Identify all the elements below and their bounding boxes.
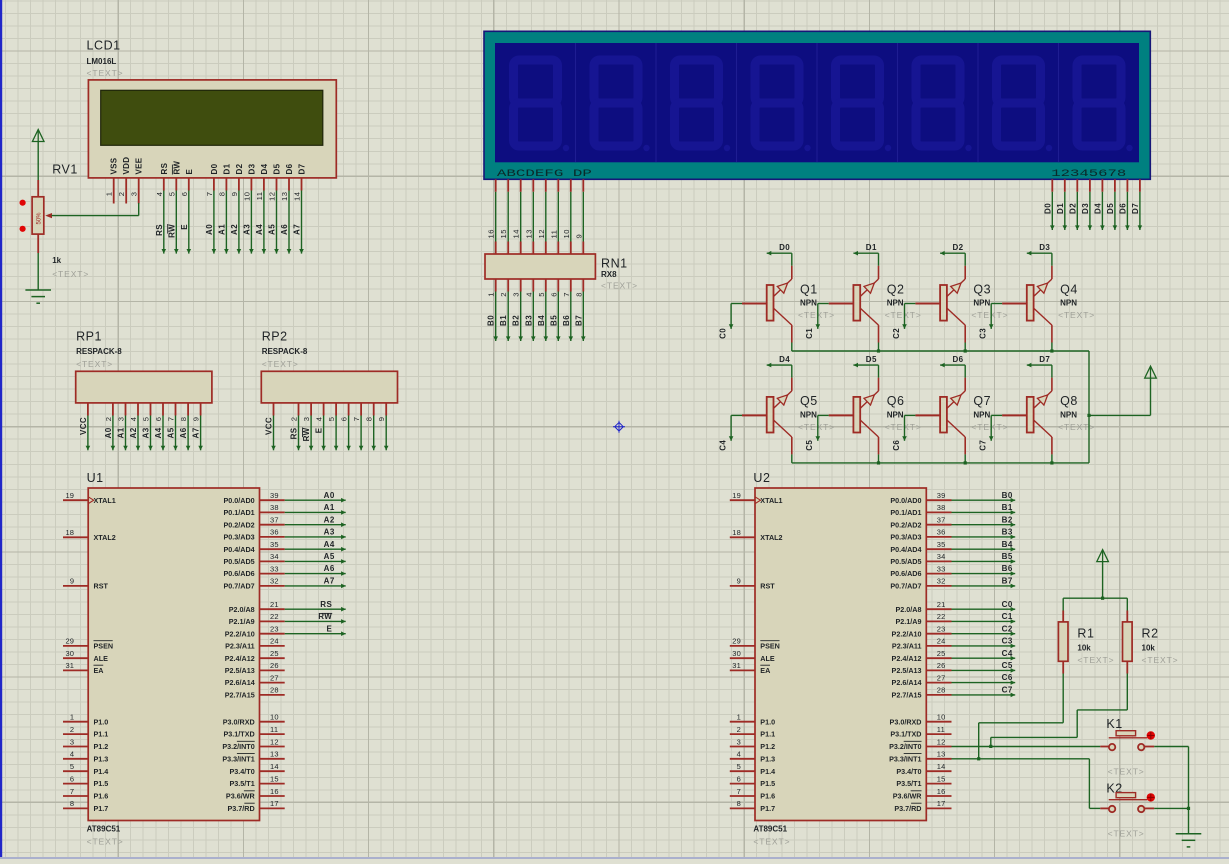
svg-text:D5: D5 [273,163,282,174]
power symbol VCC right of Q8 [1145,366,1157,378]
svg-text:2: 2 [70,725,74,734]
svg-text:4: 4 [129,417,138,422]
svg-text:30: 30 [732,649,741,658]
microcontroller U2 body [755,488,926,821]
svg-text:34: 34 [937,552,946,561]
svg-text:8: 8 [737,799,741,808]
wire collector of Q8 to rail [1051,454,1053,463]
wire LCD pin 14 to net A7 [299,191,304,254]
svg-text:24: 24 [270,637,279,646]
svg-text:D3: D3 [247,163,256,174]
svg-text:RP1: RP1 [76,330,102,344]
potentiometer RV1 top stub [37,180,39,197]
display digit pin 4 stub [1089,179,1091,192]
U1 pin 25 P2.4/A12 stub [260,657,285,659]
transistor Q6 base stub [829,414,854,416]
wire RP2 pin 7 [359,416,364,451]
svg-text:XTAL1: XTAL1 [760,496,782,505]
wire R1 R2 top rail [1063,597,1127,599]
U2 pin 16 P3.6/WR stub [926,795,951,797]
wire R1 bottom to U2 pin13 net [979,674,1063,759]
svg-text:D7: D7 [1039,355,1050,364]
svg-text:P3.2/INT0: P3.2/INT0 [889,742,921,751]
RN1 pin 16 stub [495,242,497,255]
svg-text:NPN: NPN [973,299,990,308]
svg-text:5: 5 [737,762,741,771]
potentiometer RV1 actuator dot top [20,200,26,206]
wire ground trunk vertical [1188,747,1190,834]
svg-text:14: 14 [512,229,521,238]
overline on RW net label [322,612,332,614]
svg-text:C0: C0 [1002,600,1013,609]
svg-text:RST: RST [94,582,109,591]
wire collector of Q7 to rail [964,454,966,463]
wire RN1 pin 6 net B5 [556,292,561,342]
potentiometer RV1 body [32,197,44,234]
U2 pin 21 P2.0/A8 stub [926,608,951,610]
svg-text:A4: A4 [255,224,264,235]
RN1 pin 9 stub [582,242,584,255]
display segment pin F stub [557,179,559,192]
transistor Q4 collector [1034,308,1052,325]
svg-text:P0.2/AD2: P0.2/AD2 [224,520,255,529]
U2 pin 35 P0.4/AD4 stub [926,548,951,550]
U2 pin 28 P2.7/A15 stub [926,694,951,696]
svg-text:P2.3/A11: P2.3/A11 [225,642,255,651]
svg-text:P0.2/AD2: P0.2/AD2 [890,520,921,529]
transistor Q8 base stub [1002,414,1027,416]
svg-text:15: 15 [937,774,946,783]
wire RN1 pin 4 net B3 [531,292,536,342]
svg-text:21: 21 [270,600,279,609]
U1 pin 30 ALE stub [63,657,88,659]
U1 pin 13 P3.3/INT1 stub [260,758,285,760]
RN1 pin 8 stub [582,279,584,292]
wire K2 right to ground trunk [1154,807,1188,809]
svg-text:D2: D2 [235,163,244,174]
svg-text:D0: D0 [779,243,790,252]
wire collector of Q3 to rail [964,343,966,352]
transistor Q1 base stub [742,303,767,305]
svg-text:P0.7/AD7: P0.7/AD7 [224,582,255,591]
wire display D to RN1 [532,192,534,242]
wire U2 pin 32 net B7 [952,584,1016,589]
svg-text:16: 16 [937,787,946,796]
display segment pin DP stub [582,179,584,192]
svg-text:P2.1/A9: P2.1/A9 [896,617,922,626]
svg-text:RS: RS [160,162,169,174]
U2 pin 11 P3.1/TXD stub [926,733,951,735]
display digit pin 2 stub [1064,179,1066,192]
svg-text:50%: 50% [37,212,43,225]
svg-text:P3.0/RXD: P3.0/RXD [890,717,922,726]
svg-text:P1.2: P1.2 [760,742,775,751]
RP2 pin 8 stub [373,403,375,416]
LCD LCD1 pin 12 stub [276,178,278,191]
svg-text:B2: B2 [1002,515,1013,524]
svg-text:9: 9 [230,192,239,197]
display segment pin A stub [495,179,497,192]
transistor Q3 collector lead [964,325,966,342]
wire RP2 pin 2 [296,416,301,451]
svg-text:P2.6/A14: P2.6/A14 [892,678,922,687]
U1 pin 37 P0.2/AD2 stub [260,524,285,526]
svg-text:10k: 10k [1077,643,1091,652]
svg-text:C3: C3 [1002,637,1013,646]
svg-text:26: 26 [270,661,279,670]
wire display E to RN1 [545,192,547,242]
RP2 pin 5 stub [335,403,337,416]
wire RN1 pin 5 net B4 [544,292,549,342]
wire LCD pin 13 to net A6 [287,191,292,254]
LCD LCD1 pin 8 stub [225,178,227,191]
svg-text:9: 9 [737,577,741,586]
wire U1 pin 23 net E [285,631,346,636]
junction row1 rail [1050,349,1053,352]
RP1 pin 3 stub [125,403,127,416]
svg-text:A4: A4 [324,540,335,549]
svg-text:29: 29 [65,637,74,646]
svg-text:RS: RS [320,600,332,609]
svg-text:P3.3/INT1: P3.3/INT1 [889,754,921,763]
U1 pin 8 P1.7 stub [63,807,88,809]
svg-text:VCC: VCC [265,417,274,435]
wire RV1 wiper to LCD VEE [52,203,139,216]
svg-text:VDD: VDD [122,157,131,175]
svg-text:4: 4 [155,192,164,197]
transistor Q6 collector lead [878,437,880,454]
svg-text:A3: A3 [242,224,251,235]
svg-text:B5: B5 [549,315,558,326]
wire RP2 pin 6 [346,416,351,451]
wire rail to R1 [1062,598,1064,610]
wire RP2 pin 3 [309,416,314,451]
wire RP2 pin 4 [321,416,326,451]
transistor Q6 emitter [860,391,878,409]
wire emitter of Q5 net D4 [767,363,792,378]
display digit 5 decimal point [885,145,891,151]
LCD LCD1 pin 6 stub [188,178,190,191]
svg-text:5: 5 [537,292,546,297]
switch K2 right stub [1144,807,1154,809]
svg-text:6: 6 [180,192,189,197]
svg-text:P3.6/WR: P3.6/WR [226,792,256,801]
svg-text:4: 4 [524,292,533,297]
svg-text:P0.0/AD0: P0.0/AD0 [224,496,255,505]
sheet bottom blue border [0,857,1229,859]
svg-text:12: 12 [270,737,279,746]
wire collector of Q2 to rail [878,343,880,352]
switch K1 actuator bar [1116,731,1136,736]
U2 pin 37 P0.2/AD2 stub [926,524,951,526]
svg-text:11: 11 [549,230,558,239]
wire power to R rail [1102,562,1104,599]
svg-text:B1: B1 [1002,503,1013,512]
svg-text:P3.0/RXD: P3.0/RXD [223,717,255,726]
svg-text:P2.2/A10: P2.2/A10 [225,629,255,638]
svg-text:1: 1 [487,292,496,297]
svg-text:13: 13 [270,750,279,759]
switch K2 left stub [1100,807,1109,809]
LCD LCD1 pin 14 stub [301,178,303,191]
svg-text:P3.4/T0: P3.4/T0 [896,767,921,776]
resistor R1 body [1058,622,1068,661]
svg-text:NPN: NPN [1060,411,1077,420]
display digit separator 1 [575,43,577,162]
svg-text:A6: A6 [280,224,289,235]
svg-text:P1.0: P1.0 [94,717,109,726]
wire U2 pin 39 net B0 [952,498,1016,503]
svg-text:6: 6 [737,774,741,783]
svg-text:Q6: Q6 [887,394,905,408]
svg-text:P1.6: P1.6 [760,792,775,801]
svg-text:18: 18 [732,528,741,537]
svg-text:PSEN: PSEN [94,642,114,651]
wire U2 pin 36 net B3 [952,535,1016,540]
switch K2 left contact [1109,806,1115,812]
svg-text:C4: C4 [1002,649,1013,658]
svg-text:Q1: Q1 [800,282,818,296]
wire RP1 pin 7 [173,416,178,451]
U1 pin 12 P3.2/INT0 stub [260,746,285,748]
RP1 pin 7 stub [175,403,177,416]
transistor Q6 collector [860,420,878,437]
wire LCD pin 10 to net A3 [249,191,254,254]
svg-text:C2: C2 [1002,624,1013,633]
svg-text:5: 5 [327,417,336,422]
wire U1 pin 39 net A0 [285,498,346,503]
svg-text:12: 12 [268,192,277,201]
svg-text:<TEXT>: <TEXT> [1058,310,1095,320]
svg-text:LM016L: LM016L [87,57,117,66]
svg-text:21: 21 [937,600,946,609]
wire collector of Q5 to rail [791,454,793,463]
svg-text:P0.0/AD0: P0.0/AD0 [890,496,921,505]
transistor Q6 body bar [853,397,860,433]
svg-text:D4: D4 [1093,203,1102,214]
wire U1 pin 34 net A5 [285,559,346,564]
switch K1 right contact [1138,744,1144,750]
RP1 pin 8 stub [187,403,189,416]
svg-text:14: 14 [937,762,946,771]
transistor Q3 emitter [947,279,965,297]
LCD LCD1 pin 3 stub [138,178,140,204]
wire LCD pin 9 to net A2 [237,191,242,254]
RN1 pin 5 stub [545,279,547,292]
svg-text:XTAL1: XTAL1 [94,496,116,505]
wire U1 pin 33 net A6 [285,571,346,576]
svg-text:5: 5 [142,417,151,422]
svg-text:D0: D0 [210,163,219,174]
svg-text:8: 8 [574,292,583,297]
svg-text:A3: A3 [142,427,151,438]
junction row1 rail [877,349,880,352]
svg-text:32: 32 [270,577,279,586]
transistor Q7 base stub [915,414,940,416]
U1 pin 31 EA stub [63,669,88,671]
svg-text:1k: 1k [52,256,61,265]
wire LCD pin 12 to net A5 [274,191,279,254]
svg-text:P2.2/A10: P2.2/A10 [892,629,922,638]
U1 pin 24 P2.3/A11 stub [260,645,285,647]
U2 pin 2 P1.1 stub [730,733,755,735]
display digit 5 segments [836,60,880,146]
transistor Q4 collector lead [1051,325,1053,342]
U1 pin 15 P3.5/T1 stub [260,783,285,785]
U2 pin 30 ALE stub [730,657,755,659]
U1 pin 1 P1.0 stub [63,721,88,723]
U1 pin 29 PSEN stub [63,645,88,647]
junction R1 pin13 [977,757,980,760]
transistor Q2 base stub [829,303,854,305]
ground bottom right [1176,834,1202,847]
transistor Q8 emitter [1034,391,1052,409]
svg-text:A7: A7 [293,224,302,235]
LCD LCD1 pin 5 stub [175,178,177,191]
U2 pin 5 P1.4 stub [730,770,755,772]
potentiometer RV1 bottom stub [37,234,39,253]
wire U1 pin 38 net A1 [285,510,346,515]
wire RP2 pin 8 [371,416,376,451]
wire base of Q4 net C3 [989,304,1002,329]
display digit 1 decimal point [563,145,569,151]
svg-text:NPN: NPN [800,299,817,308]
svg-text:P1.3: P1.3 [760,754,775,763]
svg-text:C1: C1 [1002,612,1013,621]
wire trunk between rails [1088,351,1090,463]
svg-text:A2: A2 [230,224,239,235]
svg-text:P3.2/INT0: P3.2/INT0 [222,742,254,751]
wire emitter of Q3 net D2 [940,251,965,266]
wire U2 pin 28 net C7 [952,693,1016,698]
wire display digit 4 net D3 [1088,192,1093,230]
wire U2 pin 24 net C3 [952,644,1016,649]
junction power rail [1101,597,1104,600]
U1 pin 4 P1.3 stub [63,758,88,760]
svg-text:P1.2: P1.2 [94,742,109,751]
wire display F to RN1 [557,192,559,242]
svg-text:35: 35 [270,540,279,549]
transistor Q5 collector [774,420,792,437]
display digit 3 decimal point [724,145,730,151]
svg-text:EA: EA [94,666,104,675]
svg-text:RW: RW [172,161,181,175]
RN1 pin 12 stub [545,242,547,255]
junction row2 rail [1050,461,1053,464]
transistor Q4 base stub [1002,303,1027,305]
wire RP1 pin 4 [136,416,141,451]
wire RP1 pin 2 [111,416,116,451]
8-digit 7-segment display body [484,31,1150,179]
junction row2 rail [964,461,967,464]
display digit 1 segments [514,60,558,146]
svg-text:33: 33 [937,564,946,573]
svg-text:13: 13 [937,750,946,759]
svg-text:12: 12 [937,737,946,746]
junction K2 ground trunk [1187,807,1190,810]
svg-text:VEE: VEE [135,157,144,174]
svg-text:RX8: RX8 [601,270,617,279]
svg-text:D6: D6 [1118,203,1127,214]
sheet left blue border [0,0,2,859]
svg-text:22: 22 [937,612,946,621]
U2 pin 9 RST stub [730,585,755,587]
svg-text:22: 22 [270,612,279,621]
transistor Q5 base stub [742,414,767,416]
switch K2 actuator bar line [1109,799,1148,801]
wire RP1 pin 9 [198,416,203,451]
svg-text:P2.1/A9: P2.1/A9 [229,617,255,626]
wire U2 pin 34 net B5 [952,559,1016,564]
U2 pin 34 P0.5/AD5 stub [926,560,951,562]
svg-text:28: 28 [270,686,279,695]
U1 pin 11 P3.1/TXD stub [260,733,285,735]
display digit 7 segments [997,60,1041,146]
svg-text:A0: A0 [324,491,335,500]
wire RP2 pin 1 [271,416,276,451]
svg-text:13: 13 [280,192,289,201]
power symbol VCC above RV1 [32,130,44,142]
U2 pin 17 P3.7/RD stub [926,807,951,809]
svg-text:3: 3 [117,417,126,422]
U1 pin 26 P2.5/A13 stub [260,669,285,671]
display segment pin G stub [570,179,572,192]
U2 pin 24 P2.3/A11 stub [926,645,951,647]
svg-text:14: 14 [293,192,302,201]
svg-text:ALE: ALE [94,654,109,663]
svg-text:LCD1: LCD1 [87,39,121,53]
display digit 2 decimal point [643,145,649,151]
svg-text:1: 1 [105,192,114,197]
transistor Q4 emitter lead [1051,266,1053,279]
svg-text:P2.4/A12: P2.4/A12 [225,654,255,663]
svg-text:B4: B4 [537,315,546,326]
svg-text:P1.4: P1.4 [760,767,775,776]
svg-text:<TEXT>: <TEXT> [798,422,835,432]
svg-text:38: 38 [270,503,279,512]
display digit separator 4 [816,43,818,162]
transistor Q7 collector lead [964,437,966,454]
svg-text:P2.5/A13: P2.5/A13 [225,666,255,675]
svg-text:10: 10 [270,713,279,722]
svg-text:C0: C0 [718,328,727,339]
U1 pin 34 P0.5/AD5 stub [260,560,285,562]
transistor Q2 collector [860,308,878,325]
svg-text:23: 23 [937,625,946,634]
U1 pin 18 XTAL2 stub [63,536,88,538]
svg-text:RV1: RV1 [52,163,78,177]
svg-text:5: 5 [167,192,176,197]
svg-text:39: 39 [937,491,946,500]
wire display digit 6 net D5 [1113,192,1118,230]
junction row2 rail [877,461,880,464]
U2 pin 15 P3.5/T1 stub [926,783,951,785]
svg-text:12345678: 12345678 [1051,168,1126,180]
RP2 pin 1 stub [273,403,275,416]
svg-text:RST: RST [760,582,775,591]
svg-text:<TEXT>: <TEXT> [971,310,1008,320]
LCD LCD1 pin 7 stub [213,178,215,191]
svg-text:RP2: RP2 [262,330,288,344]
svg-text:U1: U1 [87,471,104,485]
wire R2 bottom to U2 pin12 net [991,674,1128,747]
RP1 pin 1 stub [87,403,89,416]
svg-text:7: 7 [167,417,176,422]
transistor Q5 collector lead [791,437,793,454]
transistor Q4 emitter [1034,279,1052,297]
wire emitter of Q1 net D0 [767,251,792,266]
transistor Q8 collector [1034,420,1052,437]
